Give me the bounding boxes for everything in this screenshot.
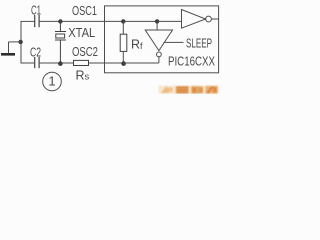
- ground: [1, 53, 15, 56]
- node Rf bottom junction: [121, 61, 126, 66]
- wire buffer output to internal logic: [211, 18, 218, 20]
- svg-text:XTAL: XTAL: [68, 26, 95, 40]
- wire SLEEP enable: [164, 41, 184, 43]
- node gate input junction: [155, 19, 159, 23]
- crystal XTAL X1: [55, 21, 66, 63]
- wire OSC1 segment C1 to crystal node: [40, 20, 61, 22]
- svg-text:Rs: Rs: [76, 68, 90, 82]
- node Rf top junction: [121, 19, 125, 23]
- inverter output bubble: [157, 52, 162, 57]
- svg-text:C1: C1: [31, 3, 41, 17]
- wire OSC1 segment into chip to Rf node: [60, 20, 123, 22]
- node OSC1 crystal junction: [58, 19, 62, 23]
- op-amp U1b internal buffer (right triangle): [182, 10, 206, 29]
- wire C1 left lead: [21, 20, 35, 22]
- wire Rs to chip OSC2 pin: [89, 62, 124, 64]
- svg-text:C2: C2: [30, 46, 41, 60]
- resistor Rs: [74, 60, 89, 65]
- svg-text:Rf: Rf: [131, 37, 143, 51]
- wire OSC1 line to gate node: [123, 20, 157, 22]
- node OSC2 crystal junction: [58, 61, 63, 66]
- svg-text:SLEEP: SLEEP: [186, 36, 212, 50]
- op-amp U1a oscillator inverter (down triangle): [145, 30, 172, 51]
- wire ground tap vertical: [8, 42, 10, 53]
- wire Rf bottom lead: [122, 51, 124, 63]
- svg-text:OSC1: OSC1: [72, 4, 97, 18]
- node ground tap on left rail: [18, 40, 22, 44]
- wire OSC2 line to inverter output bubble: [123, 62, 159, 64]
- node note 1 callout circle: [43, 72, 62, 91]
- wire OSC2 segment C2 to crystal node: [40, 62, 61, 64]
- svg-text:1: 1: [48, 73, 55, 88]
- capacitor C2: [35, 57, 39, 68]
- watermark logo: [159, 86, 219, 94]
- svg-text:OSC2: OSC2: [72, 45, 98, 59]
- wire crystal node to Rs: [60, 62, 73, 64]
- wire left rail between C1 and C2: [20, 21, 22, 63]
- capacitor C1: [35, 15, 39, 27]
- wire bubble to OSC2 line: [158, 57, 160, 63]
- wire C2 left lead: [21, 62, 35, 64]
- chip box U1 PIC16CXX outline: [105, 6, 219, 73]
- wire gate input stub: [156, 21, 158, 30]
- wire Rf top lead: [122, 21, 124, 34]
- wire ground tap horizontal: [9, 41, 22, 43]
- svg-text:PIC16CXX: PIC16CXX: [168, 54, 216, 68]
- resistor Rf: [120, 34, 127, 51]
- wire OSC1 line to internal buffer: [157, 20, 181, 22]
- buffer output bubble: [206, 16, 212, 22]
